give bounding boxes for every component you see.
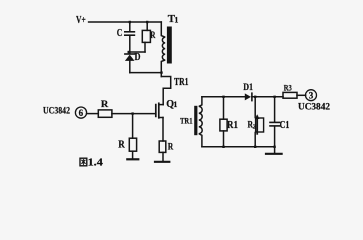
svg-text:2: 2: [253, 124, 256, 131]
svg-text:C1: C1: [280, 120, 290, 131]
svg-text:D: D: [135, 52, 141, 63]
svg-text:R: R: [101, 100, 109, 110]
svg-text:1: 1: [174, 15, 178, 24]
svg-text:D1: D1: [243, 82, 253, 92]
svg-text:1: 1: [173, 100, 177, 109]
svg-text:R: R: [150, 31, 155, 41]
svg-text:V+: V+: [76, 15, 86, 26]
svg-text:TR1: TR1: [174, 77, 189, 88]
svg-text:3: 3: [309, 91, 314, 101]
svg-text:TR1: TR1: [180, 116, 193, 126]
svg-text:UC3842: UC3842: [298, 102, 330, 113]
svg-text:1.4: 1.4: [88, 158, 103, 169]
svg-text:R1: R1: [227, 120, 238, 131]
svg-text:UC3842: UC3842: [43, 106, 70, 117]
svg-text:R: R: [118, 139, 125, 150]
svg-text:C: C: [117, 28, 123, 39]
svg-text:R3: R3: [284, 82, 292, 92]
svg-text:6: 6: [79, 108, 84, 118]
svg-text:R: R: [168, 143, 174, 153]
